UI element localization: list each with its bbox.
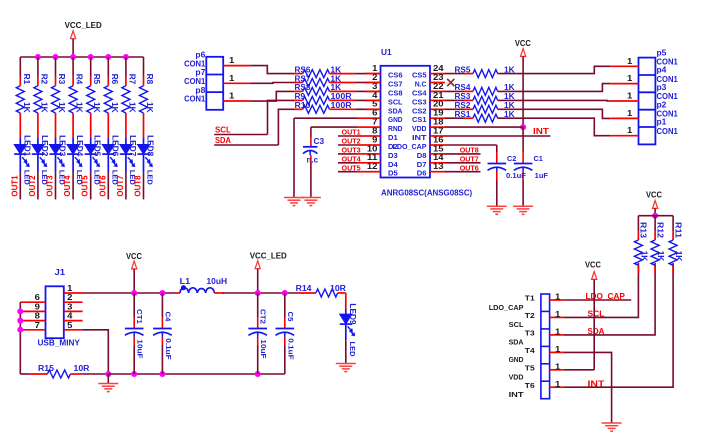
svg-text:T3: T3 [525, 328, 535, 337]
wire T3 to R12 [564, 263, 655, 335]
wire SCL to R9 [268, 100, 303, 134]
svg-text:OUT8: OUT8 [460, 146, 479, 155]
pin 6 of J1 [20, 293, 45, 302]
pin 1 of T4 [550, 345, 564, 354]
connector p6/p7/p8 body [206, 57, 223, 110]
resistor R7 [122, 74, 136, 113]
wire LED3 to OUT3 [55, 172, 57, 199]
resistor R1 [16, 74, 31, 113]
svg-text:n.c: n.c [307, 156, 319, 165]
svg-text:p3: p3 [657, 83, 667, 92]
pin 11 of U1 (D4) [366, 153, 399, 169]
svg-text:1K: 1K [674, 251, 683, 262]
svg-text:10: 10 [367, 144, 378, 153]
svg-text:16: 16 [433, 135, 444, 144]
svg-text:R11: R11 [673, 222, 682, 239]
svg-text:1: 1 [555, 345, 561, 354]
svg-text:RS4: RS4 [455, 83, 471, 92]
pin 18 of U1 (VDD) [412, 118, 445, 134]
svg-text:OUT2: OUT2 [28, 175, 37, 197]
wire OUT6 from pin 13 [445, 171, 481, 173]
wire T6 to R11 [564, 263, 673, 387]
svg-text:T2: T2 [525, 311, 535, 320]
wire R5 to LED5 [90, 113, 92, 138]
net label SDA (T3) [588, 326, 605, 336]
svg-text:10uF: 10uF [136, 339, 145, 359]
svg-text:N.C: N.C [415, 80, 427, 89]
resistor RS1 1K [445, 110, 515, 122]
svg-text:R7: R7 [127, 74, 136, 85]
svg-text:SCL: SCL [588, 309, 605, 319]
pin 1 of J1 [64, 284, 83, 293]
svg-text:p2: p2 [657, 100, 667, 109]
svg-text:1: 1 [627, 57, 633, 66]
power VCC_LED (top) [65, 21, 102, 57]
svg-text:INT: INT [588, 378, 606, 388]
svg-text:8: 8 [372, 126, 378, 135]
svg-text:R2: R2 [39, 74, 48, 85]
junction CT1 bottom [131, 371, 137, 377]
pin 1 of p3 [610, 92, 638, 102]
junction CT2 top [255, 290, 261, 296]
wire bus to R6 [107, 57, 109, 86]
wire LED1 to OUT1 [19, 172, 21, 199]
svg-text:RS1: RS1 [455, 110, 471, 119]
svg-text:20: 20 [433, 100, 444, 109]
wire T4 to ground [564, 352, 612, 423]
svg-text:LED8: LED8 [146, 135, 155, 157]
wire C2 to ground [496, 172, 498, 206]
wire LED4 to OUT4 [72, 172, 74, 199]
wire RS4 to p4 [498, 84, 611, 92]
svg-text:RS3: RS3 [455, 92, 471, 101]
svg-text:C4: C4 [163, 312, 172, 323]
pin 7 of J1 [20, 321, 45, 330]
LED LED6 [102, 135, 119, 185]
svg-text:LED6: LED6 [110, 135, 119, 157]
svg-text:CS8: CS8 [388, 88, 403, 97]
svg-text:R15: R15 [38, 364, 54, 373]
wire LED5 to OUT5 [90, 172, 92, 199]
net label INT (T6) [588, 378, 606, 388]
svg-text:SDA: SDA [388, 106, 403, 115]
svg-text:3: 3 [67, 302, 73, 311]
pin 19 of U1 (CS1) [412, 109, 445, 125]
svg-text:CON1: CON1 [184, 77, 206, 86]
svg-text:GND: GND [509, 355, 524, 364]
resistor R5 [87, 74, 102, 113]
wire R4 to LED4 [72, 113, 74, 138]
svg-text:OUT6: OUT6 [98, 175, 107, 197]
svg-text:1uF: 1uF [535, 173, 549, 180]
pin 4 of J1 [64, 312, 83, 321]
svg-text:RS7: RS7 [295, 74, 311, 83]
pin 22 of U1 (CS4) [412, 82, 445, 98]
svg-text:1: 1 [627, 92, 633, 101]
wire ground stub [107, 374, 109, 384]
svg-text:C1: C1 [534, 156, 543, 163]
wire R7 to LED7 [125, 113, 127, 138]
svg-text:p8: p8 [195, 86, 205, 95]
svg-text:OUT4: OUT4 [63, 175, 72, 197]
svg-text:8: 8 [35, 312, 41, 321]
junction bus col5 [88, 54, 94, 60]
junction bus col2 [35, 54, 41, 60]
wire R14 to LED9 [345, 293, 347, 309]
svg-text:CS3: CS3 [412, 97, 427, 106]
svg-text:1: 1 [229, 56, 235, 65]
svg-text:INT: INT [533, 127, 549, 136]
wire R8 to LED8 [143, 113, 145, 138]
svg-text:R13: R13 [639, 222, 648, 238]
svg-text:ANRG08SC(ANSG08SC): ANRG08SC(ANSG08SC) [381, 189, 473, 198]
svg-text:23: 23 [433, 73, 444, 82]
svg-text:CS5: CS5 [412, 71, 427, 80]
svg-text:10uF: 10uF [259, 339, 268, 359]
junction ground rail [105, 371, 111, 377]
svg-text:6: 6 [35, 293, 41, 302]
wire C4 to bottom rail [161, 337, 163, 374]
pin 1 of p5 [610, 57, 638, 67]
resistor R8 [140, 74, 155, 113]
resistor RS2 1K [445, 101, 515, 113]
svg-text:OUT7: OUT7 [460, 155, 479, 164]
svg-text:1: 1 [627, 109, 633, 118]
svg-text:J1: J1 [55, 268, 66, 277]
wire bus to R8 [143, 57, 145, 86]
ground (LED9) [336, 364, 356, 372]
testpoint T4 (GND) labels [509, 346, 536, 364]
connector p3 labels [657, 83, 679, 101]
net label OUT8 (U1) [460, 146, 479, 155]
wire bus to R2 [37, 57, 39, 86]
junction VCC bank [652, 213, 658, 219]
pin 9 of U1 (D2) [366, 135, 398, 151]
svg-text:1: 1 [229, 92, 235, 101]
wire L1 to VCC_LED rail [223, 292, 298, 294]
pin 24 of U1 (CS5) [412, 64, 445, 80]
svg-text:CON1: CON1 [184, 95, 206, 104]
ground (C1) [513, 206, 533, 214]
net label SCL (T2) [588, 309, 605, 319]
pin 8 of U1 (D1) [366, 126, 398, 142]
testpoint T5 (VDD) labels [509, 363, 535, 381]
wire bus to R5 [90, 57, 92, 86]
capacitor CT1 10uF [125, 293, 145, 359]
connector p6 labels [184, 51, 206, 69]
wire LED2 to OUT2 [37, 172, 39, 199]
pin 4 of U1 (SCL) [366, 91, 404, 107]
pin 2 of U1 (CS7) [366, 73, 403, 89]
svg-text:VCC_LED: VCC_LED [250, 252, 287, 261]
svg-text:1: 1 [555, 362, 561, 371]
pin 17 of U1 (INT) [412, 126, 445, 142]
wire T5 to VCC [564, 369, 595, 371]
svg-text:D4: D4 [388, 160, 399, 169]
svg-text:VDD: VDD [412, 124, 427, 133]
svg-text:OUT7: OUT7 [116, 175, 125, 197]
wire R9 to pin 4 [330, 99, 381, 101]
LED LED8 [137, 135, 154, 185]
svg-text:T4: T4 [525, 346, 536, 355]
pin 14 of U1 (D7) [417, 153, 445, 169]
svg-text:L1: L1 [180, 277, 191, 286]
net label OUT3 [46, 175, 55, 197]
wire OUT8 from pin 15 [445, 153, 481, 155]
power VCC (R11-R13 bank) [646, 191, 662, 216]
svg-text:4: 4 [67, 312, 73, 321]
resistor R14 10R [296, 284, 347, 297]
pin 13 of U1 (D6) [417, 162, 445, 178]
wire RS8 to pin 3 [330, 90, 381, 92]
svg-text:p7: p7 [195, 68, 205, 77]
pin 9 of J1 [20, 302, 45, 311]
capacitor C1 1uF [514, 156, 549, 180]
pin 3 of U1 (CS8) [366, 82, 403, 98]
wire R2 to LED2 [37, 113, 39, 138]
svg-text:R14: R14 [296, 284, 312, 293]
wire p6 to RS6 [250, 66, 302, 74]
power VCC (top middle) [515, 39, 531, 127]
svg-text:SDA: SDA [588, 326, 605, 336]
net label OUT1 [10, 175, 19, 197]
wire RS6 to pin 1 [330, 73, 381, 75]
connector p2 labels [657, 100, 679, 118]
pin 23 of U1 (N.C) [415, 73, 445, 89]
junction CT2 bottom [255, 371, 261, 377]
net label INT (U1) [533, 127, 549, 136]
testpoint T1 (LDO_CAP) labels [489, 294, 535, 312]
wire VCC to C1 [522, 127, 524, 163]
svg-text:VDD: VDD [509, 373, 524, 382]
wire OUT4 to pin 11 [338, 162, 366, 164]
svg-text:RS5: RS5 [455, 65, 471, 74]
svg-text:1K: 1K [92, 102, 101, 113]
wire T2 to R13 [564, 263, 639, 317]
wire VCC rail [83, 292, 176, 294]
connector p4 labels [657, 66, 679, 84]
net label OUT4 [63, 175, 72, 197]
resistor R6 [104, 74, 119, 113]
svg-text:OUT1: OUT1 [342, 128, 361, 137]
svg-text:LED3: LED3 [58, 135, 67, 157]
svg-text:1: 1 [229, 74, 235, 83]
pin 6 of U1 (GND) [366, 109, 403, 125]
connector p1 labels [657, 118, 679, 136]
svg-text:1: 1 [555, 293, 561, 302]
resistor RS4 1K [445, 83, 515, 95]
svg-text:LED: LED [348, 342, 357, 357]
connector p5 labels [657, 48, 679, 66]
junction bus col3 [53, 54, 59, 60]
svg-text:10R: 10R [330, 284, 346, 293]
svg-text:19: 19 [433, 109, 444, 118]
junction VCC/VDD [520, 124, 526, 130]
net label OUT2 [28, 175, 37, 197]
svg-text:CS6: CS6 [388, 71, 403, 80]
wire bus to R4 [72, 57, 74, 86]
svg-text:11: 11 [367, 153, 378, 162]
resistor R15 10R [30, 364, 90, 378]
svg-text:SCL: SCL [509, 320, 524, 329]
svg-text:D1: D1 [388, 133, 398, 142]
svg-text:OUT2: OUT2 [342, 137, 361, 146]
resistor R13 1K [634, 216, 648, 274]
connector T1-T6 body [541, 294, 550, 399]
svg-text:LED9: LED9 [348, 303, 357, 325]
svg-text:SDA: SDA [215, 136, 231, 145]
svg-text:10R: 10R [74, 364, 90, 373]
svg-text:RS2: RS2 [455, 101, 471, 110]
LED LED5 [85, 135, 102, 185]
svg-text:SCL: SCL [388, 97, 403, 106]
svg-text:1K: 1K [22, 102, 31, 113]
svg-text:12: 12 [367, 162, 378, 171]
wire RS2 to p2 [498, 109, 611, 118]
wire bottom ground rail [20, 373, 30, 375]
pin 1 of p1 [610, 126, 638, 136]
svg-text:1: 1 [555, 380, 561, 389]
svg-text:D7: D7 [417, 160, 427, 169]
svg-text:CON1: CON1 [657, 127, 679, 136]
svg-text:VCC: VCC [646, 191, 662, 200]
svg-text:15: 15 [433, 144, 444, 153]
svg-text:0.1uF: 0.1uF [286, 338, 295, 360]
svg-text:R8: R8 [145, 74, 154, 85]
svg-text:SDA: SDA [509, 338, 524, 347]
pin 5 of U1 (SDA) [366, 100, 404, 116]
svg-text:D3: D3 [388, 151, 398, 160]
resistor R3 [52, 74, 67, 113]
svg-text:10uH: 10uH [207, 277, 228, 286]
wire RS5 to p5 [498, 66, 611, 73]
svg-text:CS2: CS2 [412, 106, 427, 115]
svg-text:T6: T6 [525, 381, 535, 390]
svg-text:USB_MINY: USB_MINY [38, 339, 81, 348]
svg-text:1K: 1K [110, 102, 119, 113]
svg-text:OUT8: OUT8 [134, 175, 143, 197]
resistor R12 1K [651, 216, 665, 274]
resistor RS7 1K [295, 74, 342, 86]
wire U1 LDO_CAP pin to C2 [445, 145, 497, 164]
net label SDA [214, 136, 278, 145]
LED LED2 [32, 135, 49, 185]
capacitor C3 n.c [303, 137, 325, 165]
svg-text:24: 24 [433, 64, 444, 73]
junction VCC/CT1 top [131, 290, 137, 296]
net label OUT2 (U1) [342, 137, 361, 146]
net label OUT8 [134, 175, 143, 197]
svg-text:T1: T1 [525, 294, 535, 303]
pin 8 of J1 [20, 312, 45, 321]
svg-text:1K: 1K [75, 102, 84, 113]
svg-text:1K: 1K [127, 102, 136, 113]
op-amp U1 ANRG08SC(ANSG08SC) body [381, 48, 473, 198]
wire OUT1 to pin 8 [338, 135, 366, 137]
wire R1 to LED1 [19, 113, 21, 138]
pin 1 of U1 (CS6) [366, 64, 403, 80]
svg-text:9: 9 [35, 302, 41, 311]
resistor R10 100R [295, 101, 352, 113]
resistor RS8 1K [295, 83, 342, 95]
svg-text:CT2: CT2 [259, 309, 268, 324]
svg-text:CS4: CS4 [412, 88, 427, 97]
pin 21 of U1 (CS3) [412, 91, 445, 107]
svg-text:C3: C3 [314, 137, 325, 146]
svg-text:17: 17 [433, 126, 444, 135]
resistor R4 [69, 74, 84, 113]
svg-text:R12: R12 [655, 222, 664, 238]
net label OUT3 (U1) [342, 146, 361, 155]
svg-text:C2: C2 [507, 156, 516, 163]
junction C4 bottom [159, 371, 165, 377]
junction J1 pin9 [17, 308, 23, 314]
net label OUT1 (U1) [342, 128, 361, 137]
testpoint T3 (SDA) labels [509, 328, 535, 346]
junction bus col6 [105, 54, 111, 60]
svg-text:LED: LED [146, 170, 155, 185]
wire CT2 to bottom rail [257, 337, 259, 374]
svg-text:RS8: RS8 [295, 83, 311, 92]
wire p7 to RS7 [250, 82, 302, 85]
LED LED1 [14, 135, 31, 185]
svg-text:CS7: CS7 [388, 80, 403, 89]
wire bus to R7 [125, 57, 127, 86]
svg-text:D6: D6 [417, 169, 427, 178]
svg-text:0.1uF: 0.1uF [506, 173, 527, 180]
svg-text:R1: R1 [22, 74, 31, 85]
pin 1 of p6 [223, 56, 250, 66]
pin 2 of J1 [64, 293, 83, 302]
net label OUT5 [81, 175, 90, 197]
svg-text:7: 7 [35, 321, 41, 330]
svg-text:p5: p5 [657, 48, 667, 57]
connector J1 USB_MINY body [38, 268, 81, 348]
no-connect X on pin 23 [447, 79, 454, 86]
wire LED8 to OUT8 [143, 172, 145, 199]
wire R15 to ground junction [81, 373, 108, 375]
svg-text:9: 9 [372, 135, 378, 144]
wire U1 RND pin to C3 [311, 127, 366, 147]
wire bus to R3 [55, 57, 57, 86]
svg-text:LDO_CAP: LDO_CAP [489, 303, 524, 312]
svg-text:R6: R6 [110, 74, 119, 85]
wire LED9 to ground [345, 339, 347, 364]
LED LED7 [120, 135, 137, 185]
svg-text:T5: T5 [525, 363, 535, 372]
junction C5 top [282, 290, 288, 296]
svg-text:1: 1 [67, 284, 73, 293]
wire C1 to ground [522, 172, 524, 206]
svg-text:1: 1 [372, 64, 378, 73]
svg-text:R4: R4 [75, 74, 84, 85]
ground (USB) [98, 384, 118, 392]
svg-text:1: 1 [555, 327, 561, 336]
svg-text:LED7: LED7 [128, 135, 137, 157]
pin 7 of U1 (RND) [366, 118, 403, 134]
net label OUT4 (U1) [342, 155, 361, 164]
wire p8 to RS8 [250, 91, 302, 101]
power VCC_LED (bottom) [250, 252, 287, 294]
svg-text:OUT1: OUT1 [10, 175, 19, 197]
connector p7 labels [184, 68, 206, 86]
capacitor C2 0.1uF [488, 156, 527, 180]
junction bus col7 [123, 54, 129, 60]
net label OUT6 [98, 175, 107, 197]
wire LED6 to OUT6 [107, 172, 109, 199]
svg-text:OUT5: OUT5 [342, 163, 361, 172]
svg-text:p4: p4 [657, 66, 667, 75]
